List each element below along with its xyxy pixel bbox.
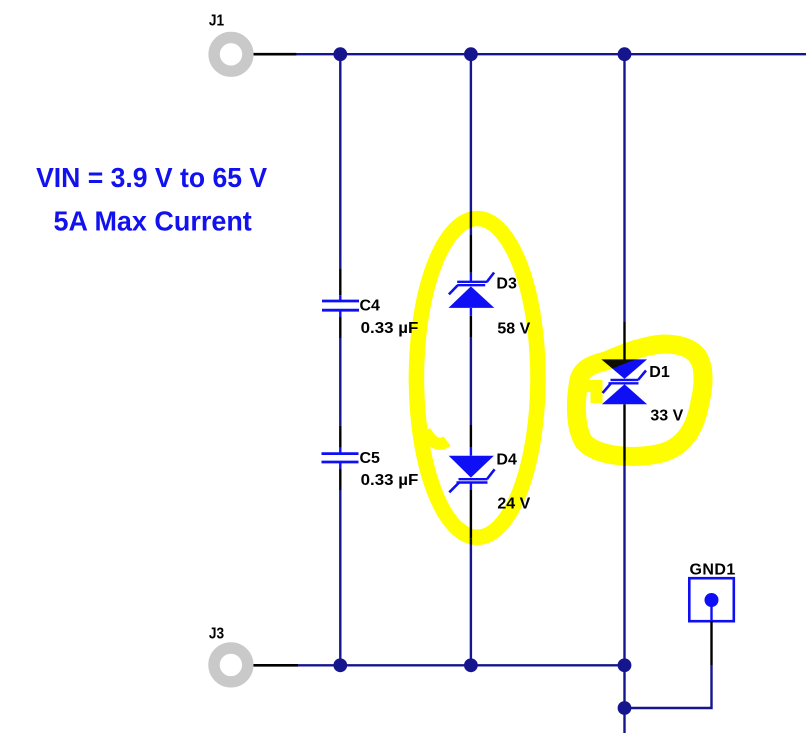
svg-text:5A Max Current: 5A Max Current — [54, 205, 252, 236]
svg-text:33 V: 33 V — [650, 408, 683, 425]
svg-text:C5: C5 — [360, 450, 381, 467]
svg-text:58 V: 58 V — [497, 320, 530, 337]
value 33 V (D1) — [650, 408, 683, 425]
highlight marker loop around D3/D4 — [416, 219, 538, 538]
svg-text:D3: D3 — [496, 276, 517, 293]
note VIN annotation text — [36, 162, 268, 237]
svg-text:VIN = 3.9 V to 65 V: VIN = 3.9 V to 65 V — [36, 162, 268, 193]
junction GND return / D1 branch — [618, 701, 632, 715]
svg-text:0.33 µF: 0.33 µF — [361, 472, 419, 489]
svg-text:D1: D1 — [649, 364, 670, 381]
wire GND bottom rail — [298, 664, 626, 666]
ground symbol GND1 — [689, 578, 734, 621]
svg-text:J3: J3 — [209, 626, 224, 643]
diode D4 zener TVS pointing down — [449, 456, 495, 493]
connector J3 — [214, 648, 248, 682]
value 58 V (D3) — [497, 320, 530, 337]
svg-text:J1: J1 — [209, 13, 224, 30]
junction top rail / C4 branch — [333, 47, 347, 61]
wire J1 pin stub — [252, 53, 296, 56]
label C4 — [360, 298, 381, 315]
label GND1 — [690, 561, 736, 578]
wire C4/C5 branch vertical — [339, 54, 341, 665]
diode D1 bidirectional TVS — [601, 359, 647, 404]
capacitor C4 — [322, 301, 359, 310]
junction bottom rail / D1 branch — [618, 658, 632, 672]
wire GND1 pin stub — [710, 621, 712, 665]
value 0.33 uF (C4) — [361, 320, 419, 337]
capacitor C5 — [322, 454, 359, 462]
wire VIN top rail — [296, 53, 806, 55]
svg-text:0.33 µF: 0.33 µF — [361, 320, 419, 337]
value 24 V (D4) — [497, 495, 530, 512]
wire D1 branch vertical — [623, 54, 625, 733]
svg-text:GND1: GND1 — [690, 561, 736, 578]
diode D3 zener TVS pointing up — [449, 273, 495, 308]
label D4 — [496, 452, 517, 469]
label D3 — [496, 276, 517, 293]
junction bottom rail / D4 branch — [464, 658, 478, 672]
label C5 — [360, 450, 381, 467]
value 0.33 uF (C5) — [361, 472, 419, 489]
label J1 — [209, 13, 224, 30]
highlight marker loop around D1 — [576, 344, 703, 456]
wire D3/D4 branch vertical — [470, 54, 472, 665]
wire GND1 return to D1 branch — [625, 665, 712, 708]
junction top rail / D1 branch — [618, 47, 632, 61]
label D1 — [649, 364, 670, 381]
wire J3 pin stub — [252, 664, 298, 667]
connector J1 — [214, 37, 248, 71]
junction bottom rail / C5 branch — [333, 658, 347, 672]
svg-text:D4: D4 — [496, 452, 517, 469]
svg-text:C4: C4 — [360, 298, 381, 315]
junction top rail / D3 branch — [464, 47, 478, 61]
label J3 — [209, 626, 224, 643]
